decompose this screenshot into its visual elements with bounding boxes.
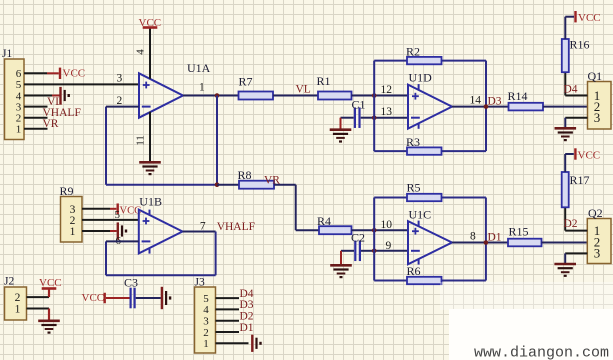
svg-text:7: 7 xyxy=(200,221,206,233)
svg-text:VCC: VCC xyxy=(578,12,601,24)
svg-text:D4: D4 xyxy=(564,83,578,95)
svg-text:13: 13 xyxy=(381,106,393,118)
svg-text:D3: D3 xyxy=(488,96,502,108)
svg-text:3: 3 xyxy=(203,316,209,328)
svg-text:3: 3 xyxy=(594,110,601,125)
svg-text:1: 1 xyxy=(15,304,21,316)
svg-text:R5: R5 xyxy=(407,180,421,194)
svg-text:R14: R14 xyxy=(508,89,528,103)
svg-text:2: 2 xyxy=(203,327,209,339)
svg-text:12: 12 xyxy=(381,84,393,96)
svg-text:U1B: U1B xyxy=(139,195,162,209)
svg-text:R8: R8 xyxy=(238,168,252,182)
svg-text:U1A: U1A xyxy=(187,61,211,75)
svg-text:J2: J2 xyxy=(4,276,14,288)
svg-text:1: 1 xyxy=(70,226,76,238)
svg-text:9: 9 xyxy=(386,240,392,252)
svg-text:VCC: VCC xyxy=(139,17,162,29)
svg-text:R15: R15 xyxy=(509,224,529,238)
svg-text:R6: R6 xyxy=(407,264,421,278)
svg-text:R7: R7 xyxy=(239,75,253,89)
svg-text:R2: R2 xyxy=(406,44,420,58)
svg-text:VCC: VCC xyxy=(82,292,105,304)
svg-text:3: 3 xyxy=(117,72,123,84)
svg-text:C1: C1 xyxy=(352,97,366,111)
svg-text:U1C: U1C xyxy=(409,207,432,221)
svg-text:3: 3 xyxy=(594,246,601,261)
svg-text:1: 1 xyxy=(203,338,209,350)
svg-text:C3: C3 xyxy=(124,276,138,290)
svg-text:5: 5 xyxy=(115,209,121,221)
svg-text:R16: R16 xyxy=(570,38,590,52)
svg-text:J3: J3 xyxy=(195,276,205,288)
svg-text:VCC: VCC xyxy=(63,68,86,80)
svg-text:D2: D2 xyxy=(240,311,254,323)
svg-text:R3: R3 xyxy=(406,135,420,149)
svg-text:1: 1 xyxy=(199,82,205,94)
svg-text:8: 8 xyxy=(470,231,476,243)
svg-text:VHALF: VHALF xyxy=(217,221,255,233)
svg-text:R1: R1 xyxy=(317,74,331,88)
svg-text:5: 5 xyxy=(203,293,209,305)
svg-text:D4: D4 xyxy=(240,288,254,300)
svg-text:2: 2 xyxy=(117,95,123,107)
svg-text:11: 11 xyxy=(135,135,147,146)
svg-text:2: 2 xyxy=(15,292,21,304)
svg-text:www.diangon.com: www.diangon.com xyxy=(474,345,609,360)
svg-text:Q1: Q1 xyxy=(588,69,603,83)
svg-text:VCC: VCC xyxy=(578,149,601,161)
svg-text:10: 10 xyxy=(381,219,393,231)
svg-text:D3: D3 xyxy=(240,299,254,311)
svg-text:Q2: Q2 xyxy=(588,206,603,220)
svg-text:4: 4 xyxy=(203,304,209,316)
svg-text:D2: D2 xyxy=(564,218,578,230)
svg-text:R9: R9 xyxy=(60,184,74,198)
svg-text:U1D: U1D xyxy=(409,71,433,85)
svg-text:14: 14 xyxy=(470,95,482,107)
svg-text:VL: VL xyxy=(296,84,311,96)
svg-text:VCC: VCC xyxy=(39,277,62,289)
svg-text:D1: D1 xyxy=(240,322,254,334)
svg-text:VHALF: VHALF xyxy=(43,107,81,119)
svg-text:D1: D1 xyxy=(488,231,502,243)
svg-text:C2: C2 xyxy=(351,230,365,244)
svg-text:VR: VR xyxy=(264,175,280,187)
svg-text:R4: R4 xyxy=(317,214,331,228)
svg-text:4: 4 xyxy=(135,49,147,55)
svg-text:J1: J1 xyxy=(2,48,12,60)
svg-text:R17: R17 xyxy=(570,173,590,187)
svg-text:1: 1 xyxy=(16,124,22,136)
